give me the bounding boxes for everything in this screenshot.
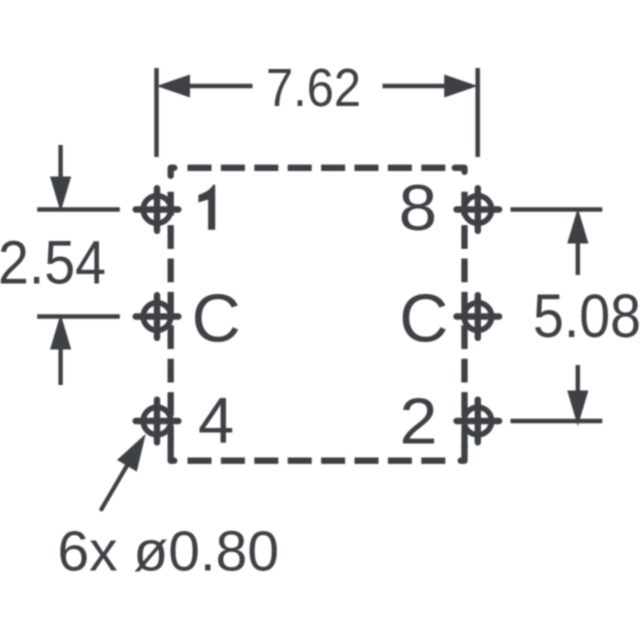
dimension 2.54 tick line rowC xyxy=(37,314,120,319)
dimension 5.08 tick line row3 xyxy=(511,419,603,424)
leader line to pad 4 xyxy=(101,466,127,510)
pad pin 8 xyxy=(457,188,500,231)
svg-text:4: 4 xyxy=(198,384,234,457)
pad pin 4 xyxy=(136,400,179,443)
pad pin C right xyxy=(457,295,500,338)
dimension 5.08 tick line row1 xyxy=(511,207,603,212)
svg-text:C: C xyxy=(399,281,448,357)
dimension 5.08 down arrow xyxy=(567,365,588,426)
svg-text:6x ø0.80: 6x ø0.80 xyxy=(58,520,280,584)
wire right edge xyxy=(461,168,467,461)
outline corner bottom-left xyxy=(171,450,175,461)
dimension 5.08 up arrow xyxy=(567,208,588,275)
pad pin C left xyxy=(136,295,179,338)
outline corner top-left xyxy=(171,168,175,176)
pad pin 1 xyxy=(136,188,179,231)
svg-text:8: 8 xyxy=(399,171,438,244)
pad pin 2 xyxy=(457,400,500,443)
outline corner bottom-right xyxy=(461,445,465,461)
dimension 2.54 down arrow xyxy=(50,145,71,212)
dimension 7.62 extension line right xyxy=(475,68,480,157)
wire bottom edge xyxy=(171,458,465,464)
leader arrowhead xyxy=(117,434,146,472)
wire top edge xyxy=(171,165,465,171)
svg-text:C: C xyxy=(192,281,241,357)
svg-text:7.62: 7.62 xyxy=(266,58,361,118)
svg-text:2: 2 xyxy=(400,385,438,458)
dimension 7.62 right arrow xyxy=(383,75,478,98)
dimension 2.54 up arrow xyxy=(50,314,71,385)
component outline (dashed rectangle) xyxy=(171,168,465,461)
svg-text:2.54: 2.54 xyxy=(0,229,106,297)
dimension 7.62 extension line left xyxy=(154,68,159,157)
dimension 7.62 left arrow xyxy=(157,75,253,98)
wire left edge xyxy=(168,168,174,461)
dimension 2.54 tick line row1 xyxy=(37,207,120,212)
pin label 1 xyxy=(198,185,215,230)
outline corner top-right xyxy=(455,168,465,172)
svg-text:5.08: 5.08 xyxy=(533,282,640,350)
